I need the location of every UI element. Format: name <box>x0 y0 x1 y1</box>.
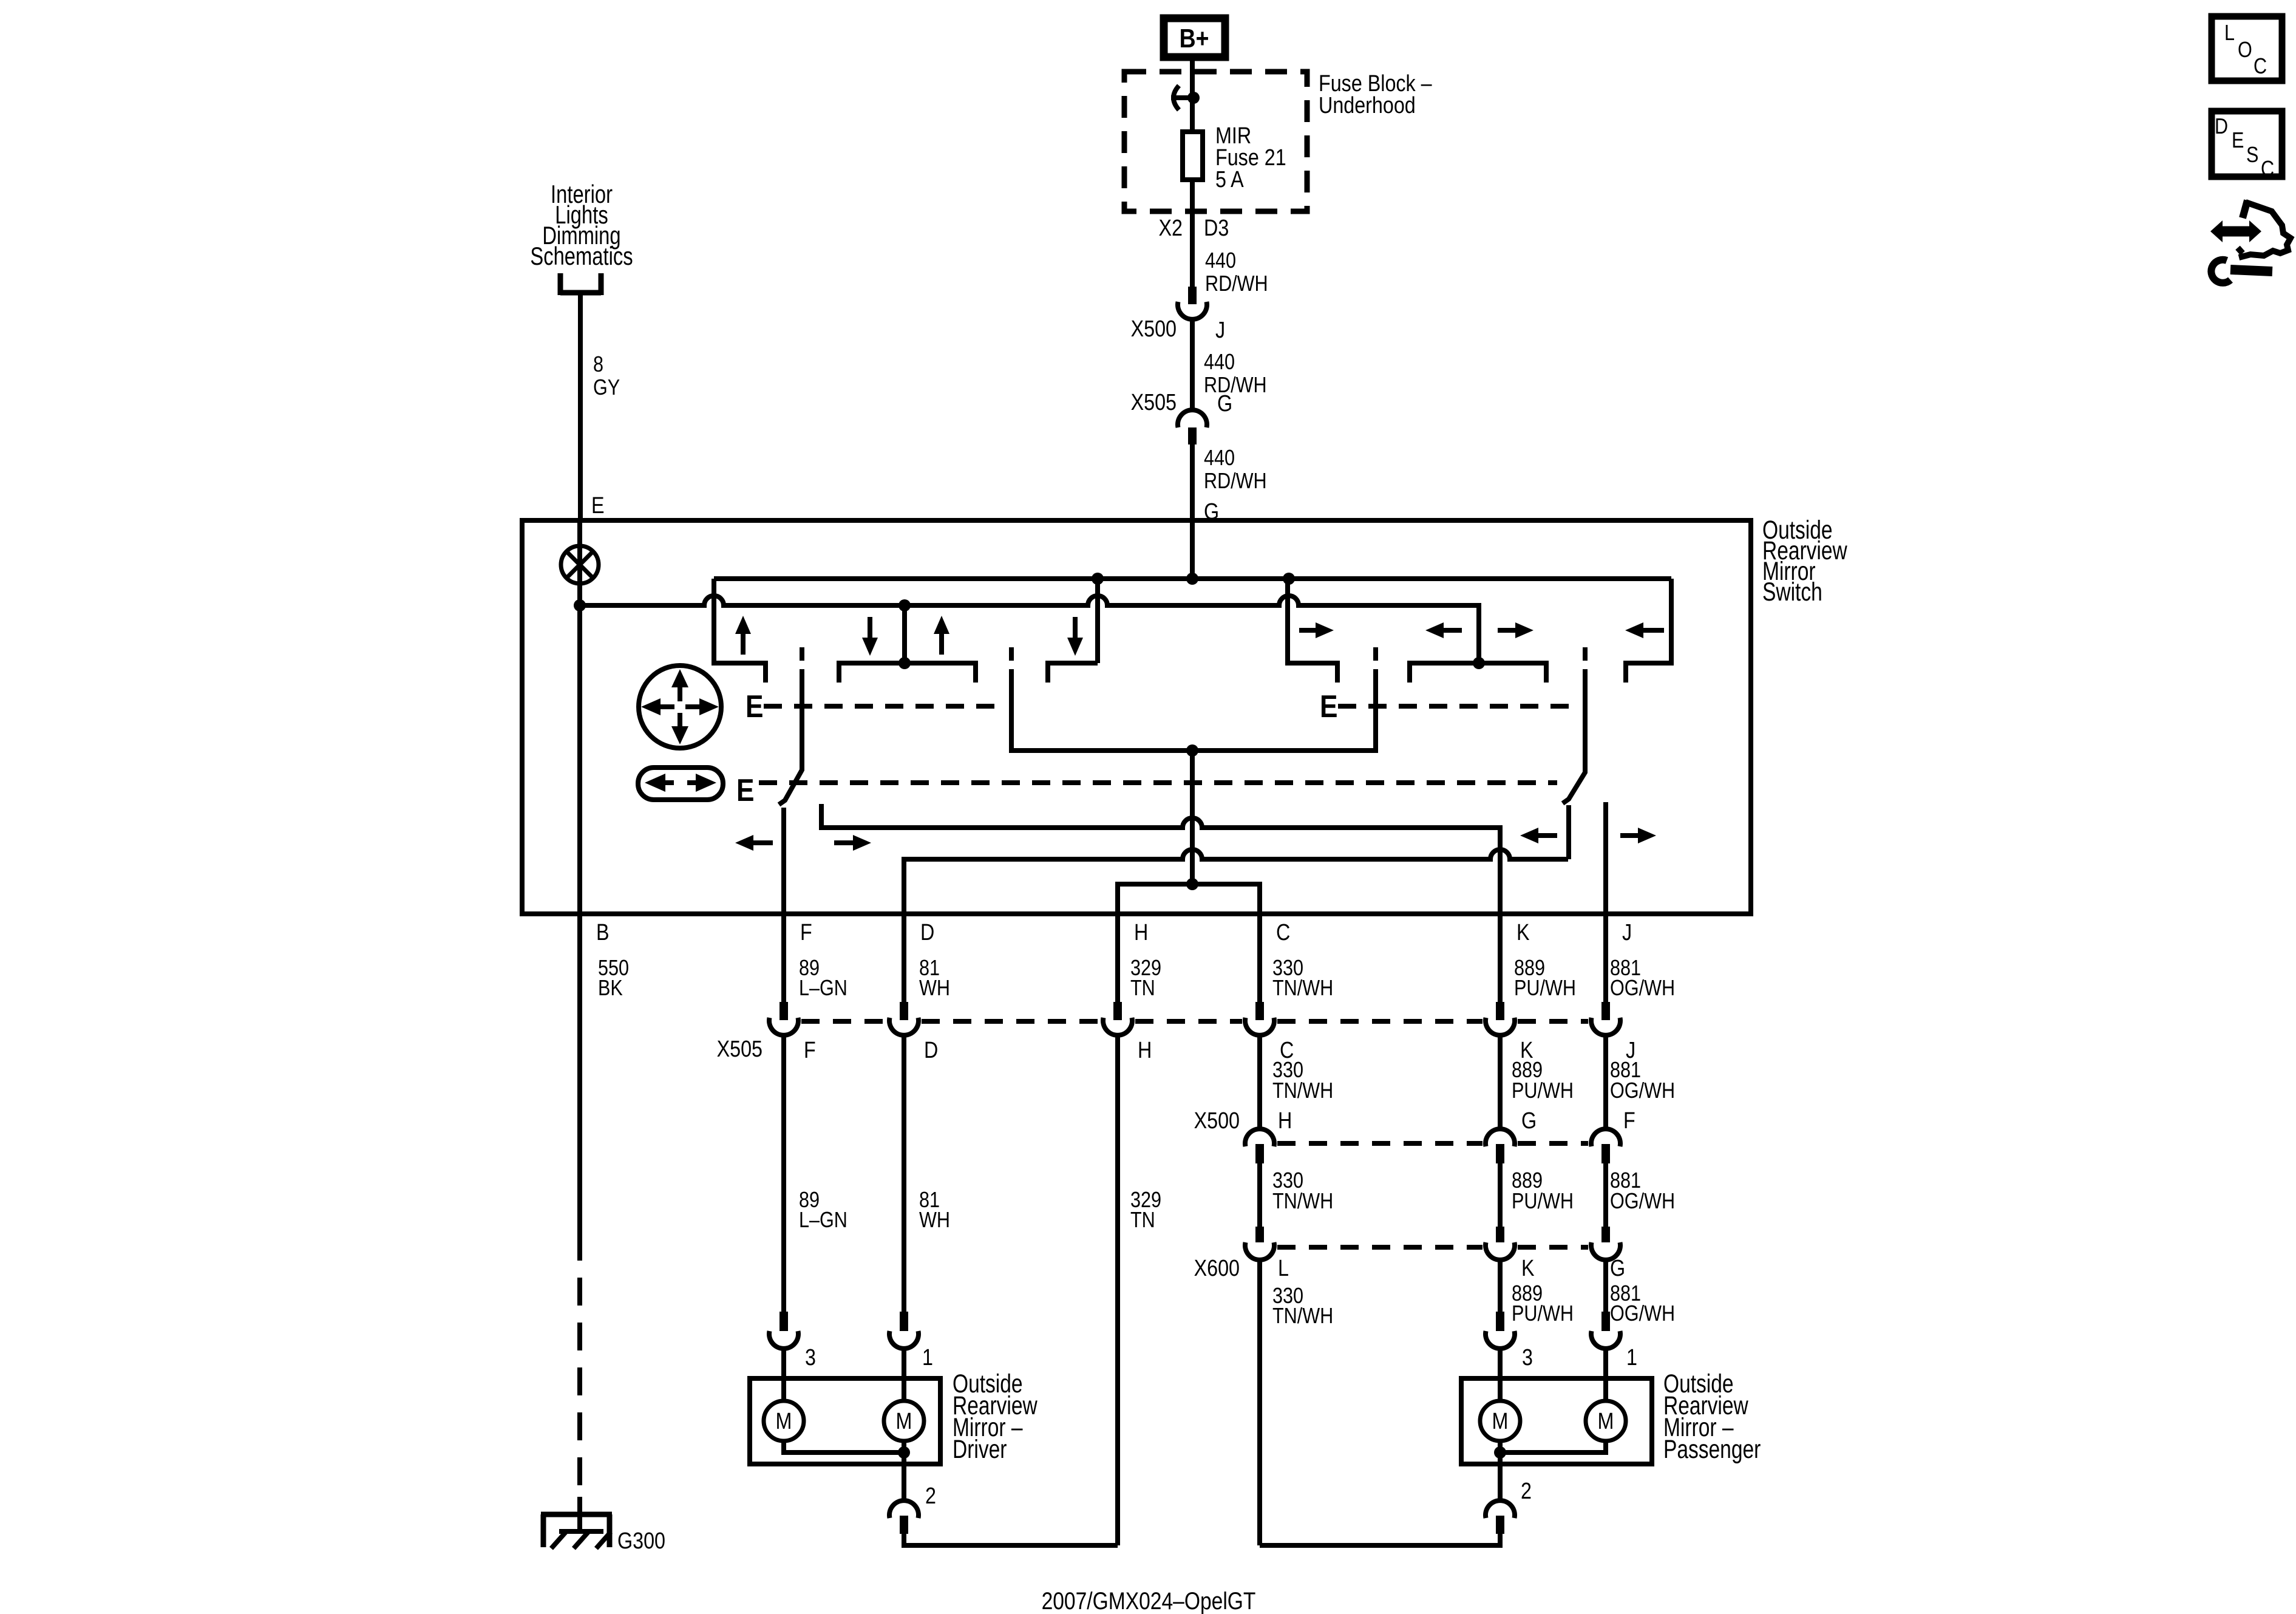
svg-text:OG/WH: OG/WH <box>1610 1190 1675 1214</box>
svg-text:D: D <box>924 1038 938 1063</box>
svg-text:L–GN: L–GN <box>799 976 847 1001</box>
svg-text:RD/WH: RD/WH <box>1204 373 1267 398</box>
svg-text:Underhood: Underhood <box>1319 93 1416 118</box>
svg-text:D: D <box>920 920 934 945</box>
svg-text:WH: WH <box>919 1208 950 1233</box>
svg-text:M: M <box>1598 1409 1614 1434</box>
svg-text:GY: GY <box>593 376 620 400</box>
svg-text:RD/WH: RD/WH <box>1205 272 1268 296</box>
svg-text:G: G <box>1217 391 1232 417</box>
svg-text:OG/WH: OG/WH <box>1610 1302 1675 1326</box>
svg-text:8: 8 <box>593 353 603 377</box>
svg-text:L: L <box>2224 21 2235 46</box>
svg-text:G300: G300 <box>617 1528 665 1554</box>
svg-text:TN: TN <box>1130 1208 1155 1233</box>
svg-text:G: G <box>1610 1256 1625 1281</box>
svg-text:L–GN: L–GN <box>799 1208 847 1233</box>
svg-text:H: H <box>1138 1038 1152 1063</box>
svg-text:5 A: 5 A <box>1215 167 1244 192</box>
svg-text:X505: X505 <box>717 1037 763 1062</box>
svg-text:C: C <box>2261 157 2274 182</box>
svg-text:OG/WH: OG/WH <box>1610 1079 1675 1103</box>
svg-text:E: E <box>736 773 754 808</box>
svg-text:PU/WH: PU/WH <box>1512 1302 1574 1326</box>
svg-text:J: J <box>1622 920 1632 945</box>
svg-text:1: 1 <box>922 1345 933 1371</box>
svg-text:H: H <box>1134 920 1148 945</box>
svg-text:TN/WH: TN/WH <box>1272 1190 1333 1214</box>
svg-text:F: F <box>804 1038 816 1063</box>
svg-text:B: B <box>596 920 610 945</box>
svg-text:G: G <box>1521 1108 1537 1134</box>
svg-text:B+: B+ <box>1180 23 1209 53</box>
svg-text:O: O <box>2238 38 2252 63</box>
svg-text:D: D <box>2215 115 2228 139</box>
svg-text:BK: BK <box>598 976 623 1001</box>
svg-text:K: K <box>1521 1256 1535 1281</box>
svg-text:Switch: Switch <box>1762 577 1822 607</box>
svg-text:J: J <box>1215 318 1225 343</box>
svg-text:E: E <box>746 689 763 724</box>
svg-text:440: 440 <box>1204 446 1235 471</box>
svg-text:X2: X2 <box>1159 216 1183 241</box>
svg-text:3: 3 <box>805 1345 816 1371</box>
svg-text:Schematics: Schematics <box>530 242 633 270</box>
svg-text:440: 440 <box>1204 350 1235 375</box>
svg-text:F: F <box>800 920 812 945</box>
svg-text:S: S <box>2246 143 2258 168</box>
svg-text:M: M <box>776 1409 792 1434</box>
svg-text:Driver: Driver <box>953 1435 1007 1464</box>
svg-text:K: K <box>1517 920 1530 945</box>
svg-text:TN/WH: TN/WH <box>1272 976 1333 1001</box>
svg-text:X500: X500 <box>1131 316 1177 342</box>
svg-text:1: 1 <box>1626 1345 1637 1371</box>
svg-text:2: 2 <box>1521 1479 1532 1504</box>
svg-text:F: F <box>1623 1108 1635 1134</box>
svg-text:RD/WH: RD/WH <box>1204 469 1267 494</box>
svg-text:WH: WH <box>919 976 950 1001</box>
svg-text:PU/WH: PU/WH <box>1512 1079 1574 1103</box>
svg-text:440: 440 <box>1205 249 1236 273</box>
svg-text:TN/WH: TN/WH <box>1272 1079 1333 1103</box>
svg-text:C: C <box>2254 55 2267 79</box>
svg-text:E: E <box>2232 129 2244 153</box>
svg-text:E: E <box>1320 689 1337 724</box>
svg-text:TN/WH: TN/WH <box>1272 1304 1333 1329</box>
svg-text:M: M <box>896 1409 912 1434</box>
svg-text:M: M <box>1492 1409 1509 1434</box>
svg-text:Passenger: Passenger <box>1663 1435 1761 1464</box>
svg-text:2007/GMX024–OpelGT: 2007/GMX024–OpelGT <box>1042 1587 1256 1614</box>
svg-text:TN: TN <box>1130 976 1155 1001</box>
svg-text:PU/WH: PU/WH <box>1512 1190 1574 1214</box>
svg-text:L: L <box>1278 1256 1289 1281</box>
svg-text:X600: X600 <box>1194 1256 1240 1281</box>
svg-text:X500: X500 <box>1194 1108 1240 1134</box>
svg-text:C: C <box>1276 920 1290 945</box>
svg-text:2: 2 <box>925 1483 936 1509</box>
svg-text:OG/WH: OG/WH <box>1610 976 1675 1001</box>
svg-text:H: H <box>1278 1108 1292 1134</box>
svg-text:X505: X505 <box>1131 390 1177 415</box>
svg-text:D3: D3 <box>1204 216 1229 241</box>
svg-text:3: 3 <box>1522 1345 1533 1371</box>
svg-text:PU/WH: PU/WH <box>1514 976 1576 1001</box>
svg-text:E: E <box>591 493 605 519</box>
